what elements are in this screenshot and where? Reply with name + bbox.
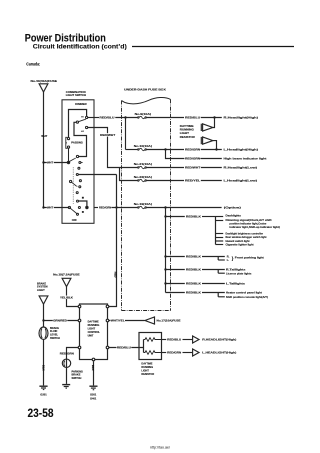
svg-text:Canada:: Canada: — [26, 62, 40, 67]
svg-text:G201: G201 — [40, 392, 47, 396]
svg-text:WHT: WHT — [41, 134, 47, 138]
svg-text:23-58: 23-58 — [28, 408, 55, 420]
svg-text:WHT/YEL: WHT/YEL — [111, 319, 125, 323]
svg-text:No.21(10A): No.21(10A) — [134, 162, 152, 166]
svg-text:}: } — [232, 256, 234, 262]
svg-text:RED/GRN: RED/GRN — [185, 148, 200, 152]
svg-text:RED/GRN: RED/GRN — [167, 351, 181, 355]
svg-text:Cigarette lighter light: Cigarette lighter light — [226, 243, 254, 246]
svg-text:R.: R. — [227, 255, 230, 259]
svg-text:DAYTIME: DAYTIME — [141, 363, 152, 366]
svg-text:L.Taillights: L.Taillights — [226, 282, 246, 286]
svg-text:OFF: OFF — [72, 218, 78, 222]
svg-text:L.Headlight(High): L.Headlight(High) — [224, 148, 259, 152]
svg-text:RED/WHT: RED/WHT — [100, 133, 115, 137]
svg-text:L.Headlight(Low): L.Headlight(Low) — [224, 179, 258, 183]
svg-text:BRAKE: BRAKE — [37, 281, 46, 285]
svg-text:No.15(7.5A)FUSE: No.15(7.5A)FUSE — [53, 272, 80, 276]
svg-text:RED/GRN: RED/GRN — [60, 351, 74, 355]
svg-text:LIGHT: LIGHT — [88, 327, 96, 330]
svg-text:L.: L. — [227, 258, 230, 262]
svg-text:No.19(10A): No.19(10A) — [134, 202, 152, 206]
svg-text:RED/BLK: RED/BLK — [186, 268, 201, 272]
svg-text:SYSTEM: SYSTEM — [37, 285, 48, 289]
svg-text:DAYTIME: DAYTIME — [88, 320, 99, 323]
svg-text:BLK: BLK — [91, 365, 95, 371]
svg-text:LO: LO — [81, 131, 84, 133]
svg-text:RED/BLK: RED/BLK — [186, 291, 201, 295]
svg-text:GRN/RED: GRN/RED — [53, 318, 67, 322]
svg-text:No.40(40A)FUSE: No.40(40A)FUSE — [31, 79, 58, 83]
svg-text:LIGHT: LIGHT — [180, 131, 190, 135]
svg-text:Power Distribution: Power Distribution — [25, 33, 106, 45]
svg-text:RED/BLU: RED/BLU — [99, 116, 114, 120]
svg-text:UNIT: UNIT — [88, 334, 94, 337]
svg-text:Shift position console light(A: Shift position console light(A/T) — [226, 295, 268, 299]
svg-text:No.10(10A): No.10(10A) — [134, 144, 152, 148]
svg-text:High beam indicator light: High beam indicator light — [224, 157, 267, 161]
svg-text:RUNNING: RUNNING — [180, 128, 194, 132]
svg-text:R.HEADLIGHT(High): R.HEADLIGHT(High) — [202, 338, 236, 342]
svg-text:RED/GRN: RED/GRN — [185, 157, 200, 161]
svg-text:BRAKE: BRAKE — [72, 374, 81, 377]
svg-text:WHT: WHT — [47, 160, 53, 164]
svg-text:Dashlights: Dashlights — [226, 214, 242, 217]
svg-text:Dashlight brightness controlle: Dashlight brightness controller — [226, 232, 264, 235]
svg-text:nttp://tao.ae/: nttp://tao.ae/ — [150, 445, 170, 449]
svg-text:YEL/BLK: YEL/BLK — [60, 295, 73, 299]
svg-text:Rear window defogger switch li: Rear window defogger switch light — [226, 236, 267, 239]
svg-text:DIMMER: DIMMER — [75, 102, 86, 106]
svg-text:RED/GRN: RED/GRN — [99, 206, 111, 210]
svg-text:G401: G401 — [90, 396, 97, 400]
svg-text:HI: HI — [81, 116, 84, 118]
svg-text:RESISTOR: RESISTOR — [180, 135, 195, 139]
svg-text:BRAKE: BRAKE — [50, 327, 59, 330]
svg-text:Circuit Identification (cont’d: Circuit Identification (cont’d) — [33, 44, 127, 51]
svg-text:RED/BLU: RED/BLU — [167, 338, 181, 342]
svg-text:No.9(10A): No.9(10A) — [135, 112, 152, 116]
svg-text:UNDER-DASH FUSE BOX: UNDER-DASH FUSE BOX — [124, 88, 166, 92]
svg-text:No.17(10A)FUSE: No.17(10A)FUSE — [157, 319, 181, 323]
svg-text:indicator light,Shift-up indic: indicator light,Shift-up indicator light… — [229, 226, 280, 229]
svg-text:RED/BLK: RED/BLK — [186, 282, 201, 286]
svg-text:License plate lights: License plate lights — [226, 271, 252, 275]
svg-text:SWITCH: SWITCH — [50, 337, 60, 340]
svg-text:LIGHT SWITCH: LIGHT SWITCH — [66, 93, 86, 97]
svg-text:LEVEL: LEVEL — [50, 334, 59, 337]
svg-text:Dimming signal(Clock,A/T shift: Dimming signal(Clock,A/T shift — [226, 219, 272, 222]
svg-text:RUNNING: RUNNING — [88, 324, 100, 327]
svg-text:WHT: WHT — [47, 206, 53, 210]
svg-text:(Option): (Option) — [224, 206, 241, 210]
svg-text:Hazard switch light: Hazard switch light — [226, 240, 250, 243]
svg-text:RED/BLK: RED/BLK — [186, 215, 201, 219]
svg-text:RED/WHT: RED/WHT — [185, 166, 201, 170]
svg-text:R.Taillights: R.Taillights — [226, 268, 246, 272]
svg-text:BLK: BLK — [42, 365, 46, 371]
svg-text:RED/YEL: RED/YEL — [185, 179, 201, 183]
svg-text:DAYTIME: DAYTIME — [180, 124, 194, 128]
svg-text:PASSING: PASSING — [71, 141, 82, 145]
svg-text:G201: G201 — [90, 392, 97, 396]
svg-text:L.HEADLIGHT(High): L.HEADLIGHT(High) — [202, 351, 236, 355]
svg-text:RUNNING: RUNNING — [141, 366, 153, 369]
svg-text:position indicator light,Cruis: position indicator light,Cruise — [229, 222, 267, 225]
svg-text:PARKING: PARKING — [72, 370, 83, 373]
svg-text:R.Headlight(High): R.Headlight(High) — [224, 116, 259, 120]
svg-text:No.22(10A): No.22(10A) — [134, 175, 152, 179]
svg-text:RED/BLU: RED/BLU — [117, 345, 131, 349]
svg-text:LIGHT: LIGHT — [141, 370, 149, 373]
svg-text:SWITCH: SWITCH — [72, 377, 82, 380]
svg-text:FLUID: FLUID — [50, 330, 58, 333]
svg-text:Heater control panel light: Heater control panel light — [226, 291, 262, 295]
svg-text:LIGHT: LIGHT — [37, 288, 45, 292]
svg-text:Front parking light: Front parking light — [235, 255, 264, 259]
svg-text:CONTROL: CONTROL — [88, 331, 101, 334]
svg-text:R.Headlight(Low): R.Headlight(Low) — [224, 166, 258, 170]
svg-text:RED/BLU: RED/BLU — [185, 116, 200, 120]
svg-text:RED/BLK: RED/BLK — [186, 255, 201, 259]
svg-text:RESISTOR: RESISTOR — [141, 373, 154, 376]
